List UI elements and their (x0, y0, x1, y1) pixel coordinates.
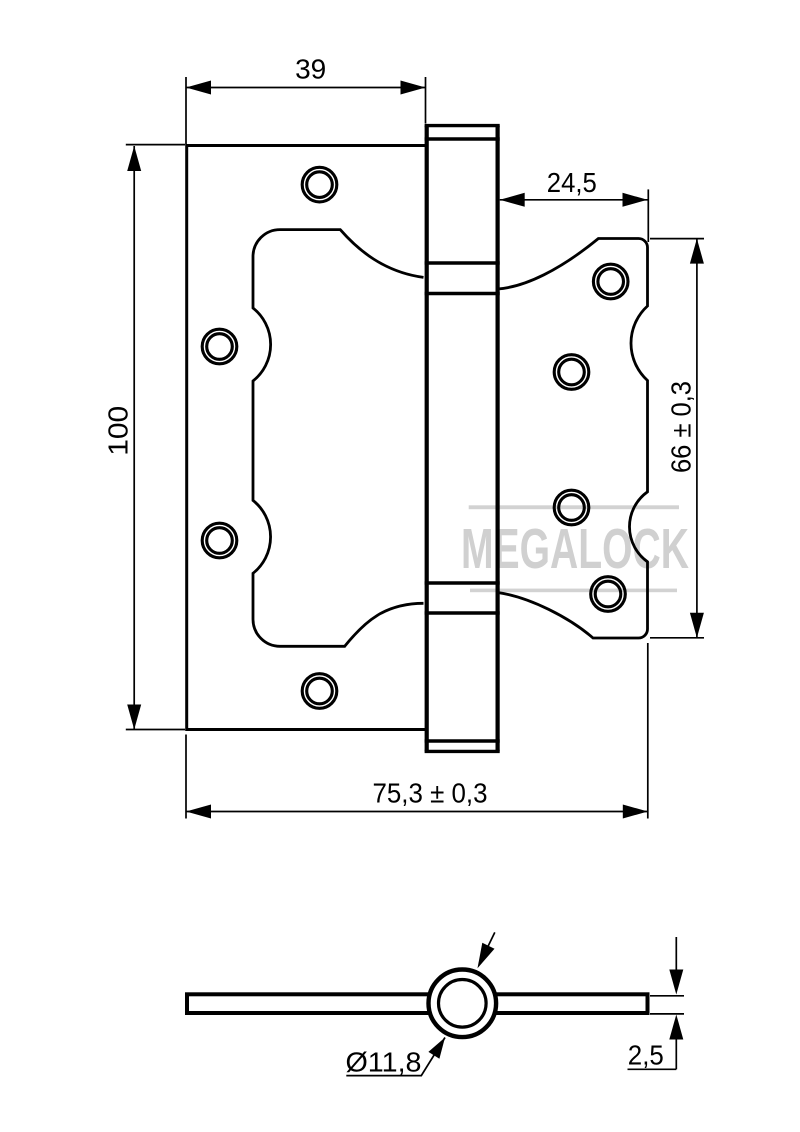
barrel bottom edge (425, 750, 500, 753)
hole left-mid-lower (202, 523, 237, 558)
hole right-mid-lower (554, 490, 589, 525)
hole left-bottom (302, 674, 337, 709)
barrel knuckle line 4 (425, 581, 500, 585)
left leaf plate (187, 146, 427, 730)
left leaf cutout (253, 230, 424, 647)
barrel knuckle line 3 (425, 292, 500, 296)
svg-text:Ø11,8: Ø11,8 (346, 1046, 422, 1077)
side view bar (187, 994, 648, 1013)
side view barrel inner circle (439, 980, 487, 1028)
hole right-top (593, 264, 628, 299)
right leaf (498, 239, 648, 639)
dimension 75,3 +- 0,3 (186, 643, 648, 819)
hole right-bottom (591, 577, 626, 612)
watermark line upper (469, 505, 679, 509)
side view barrel outer circle (429, 970, 497, 1038)
barrel knuckle line 2 (425, 261, 500, 265)
svg-text:MEGALOCK: MEGALOCK (461, 518, 689, 581)
dimension 24,5 (500, 189, 649, 242)
barrel left edge (425, 126, 429, 752)
barrel knuckle line 6 (425, 739, 500, 742)
barrel knuckle line 1 (425, 137, 500, 140)
side view top pointer (486, 932, 495, 950)
svg-text:2,5: 2,5 (628, 1040, 664, 1071)
barrel top edge (425, 124, 500, 127)
svg-text:24,5: 24,5 (547, 167, 597, 198)
barrel knuckle line 5 (425, 611, 500, 615)
dimension 100 (126, 145, 185, 730)
dimension 2,5 (628, 937, 685, 1069)
hole left-top (302, 167, 337, 202)
svg-text:39: 39 (295, 53, 326, 84)
hole left-mid-upper (202, 329, 237, 364)
watermark line lower (470, 589, 677, 593)
hole right-mid-upper (554, 355, 589, 390)
svg-text:100: 100 (102, 406, 133, 456)
svg-text:66 ± 0,3: 66 ± 0,3 (666, 381, 697, 473)
dimension 66 +- 0,3 (650, 239, 704, 638)
barrel right edge (496, 126, 500, 752)
svg-text:75,3 ± 0,3: 75,3 ± 0,3 (373, 777, 488, 808)
dimension 39 (186, 77, 426, 144)
leader diameter 11,8 (346, 1038, 445, 1076)
